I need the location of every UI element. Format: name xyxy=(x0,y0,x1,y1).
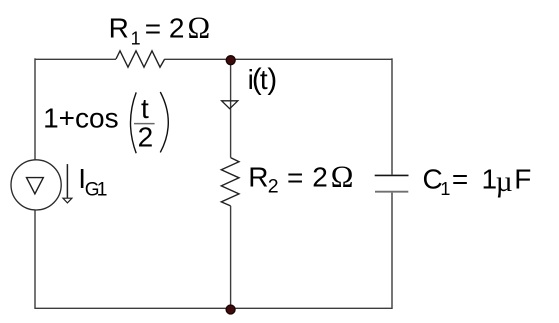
wire bottom xyxy=(35,307,392,309)
IG1 arrow line xyxy=(66,164,68,198)
svg-text:t: t xyxy=(141,93,149,124)
node dot top xyxy=(226,56,235,65)
node dot bottom xyxy=(226,305,235,314)
i(t) current direction triangle xyxy=(222,101,238,109)
wire left upper xyxy=(34,58,36,160)
svg-text:2: 2 xyxy=(169,12,185,43)
svg-text:2: 2 xyxy=(312,161,328,192)
svg-text:Ω: Ω xyxy=(331,159,354,193)
wire middle lower xyxy=(230,206,232,308)
wire middle upper xyxy=(230,60,232,158)
fraction bar xyxy=(134,123,155,125)
svg-text:µ: µ xyxy=(496,166,513,198)
svg-text:R: R xyxy=(248,161,268,192)
svg-text:=: = xyxy=(287,162,303,193)
IG1 arrowhead xyxy=(63,198,72,203)
wire right lower xyxy=(391,193,393,309)
svg-text:1+cos: 1+cos xyxy=(43,102,119,133)
current source triangle xyxy=(27,178,44,194)
big right paren xyxy=(160,92,168,152)
svg-text:Ω: Ω xyxy=(188,10,211,44)
svg-text:2: 2 xyxy=(268,176,279,198)
svg-text:1: 1 xyxy=(131,28,141,48)
svg-text:): ) xyxy=(267,63,277,96)
svg-text:F: F xyxy=(514,163,531,194)
svg-text:=: = xyxy=(145,13,161,44)
svg-text:1: 1 xyxy=(97,178,108,200)
capacitor C1 bottom plate xyxy=(375,191,408,193)
svg-text:R: R xyxy=(109,12,129,43)
current source IG1 circle xyxy=(11,160,61,210)
big left paren xyxy=(131,92,137,153)
resistor R1 xyxy=(116,51,165,67)
capacitor C1 top plate xyxy=(375,174,409,176)
wire top-right segment xyxy=(165,58,392,60)
wire left lower xyxy=(34,210,36,309)
wire top-left segment xyxy=(35,58,116,60)
resistor R2 xyxy=(221,158,239,206)
svg-text:2: 2 xyxy=(138,122,154,153)
svg-text:=: = xyxy=(452,164,468,195)
svg-text:1: 1 xyxy=(440,179,450,199)
wire right upper xyxy=(391,58,393,174)
